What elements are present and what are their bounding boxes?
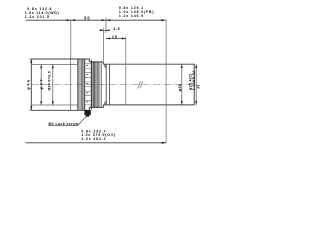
extension line x=70.8 [70,20,72,59]
svg-text:M34 P=0.5: M34 P=0.5 [48,71,52,91]
svg-text:φ37: φ37 [38,78,43,90]
dim phi37 line [40,65,42,106]
scale band left edge [84,59,86,110]
scale band graduation ticks [85,64,91,105]
svg-text:4.5: 4.5 [113,27,120,31]
barrel inner bore line bottom [32,104,78,106]
dim phi36 line at tube end [181,64,183,105]
phi37 arrows [40,65,42,69]
top dim arrow pair at x=106 [102,19,106,21]
rear section outline [89,62,103,108]
dim phi46 on front face: top arrow [30,59,32,63]
text block WD (top left) [25,7,60,19]
top dim arrow left pair at x=70.8 [66,19,70,21]
top dim end arrow at x=165.8 [161,19,165,21]
front barrel outline [31,59,89,110]
svg-text:1.2x 140.9: 1.2x 140.9 [119,14,144,18]
dimension line bottom (O/I) [26,142,167,144]
break mark slash 2 [140,81,143,88]
rear tube outline [103,64,194,105]
break mark slash 1 [138,81,141,88]
svg-text:1-32UN-2A: 1-32UN-2A [192,70,196,90]
tube V-groove bottom [104,102,106,105]
svg-text:30: 30 [84,15,91,20]
extension line x=125.8 [125,37,127,105]
M34 arrows [52,65,54,69]
svg-text:φ36: φ36 [178,84,182,92]
svg-text:FT: FT [197,84,200,88]
scale band figures [86,65,88,102]
barrel bottom extension line [29,109,31,111]
C-mount dim arrows [195,64,197,68]
tube groove line 2 [108,64,110,105]
barrel inner bore line top [32,64,78,66]
dimension 4.5 line [99,29,109,31]
dimension line top (WD) [26,19,166,21]
dim phi46 bottom arrow [30,106,32,110]
4.5 arrows [100,29,104,31]
extension line x=166.1 full [165,19,167,143]
M2 lock screw [85,110,91,117]
rear rings [98,62,101,108]
focus ring joint [70,59,72,110]
15 arrow left [106,37,110,39]
M2 leader arrowhead [85,115,88,117]
svg-text:15: 15 [112,35,118,39]
svg-text:1.2x 101.5: 1.2x 101.5 [25,15,50,19]
centerline [32,84,193,86]
scale band right edge [90,60,92,110]
tube V-groove top [104,64,106,67]
tube groove line 1 [105,64,107,105]
extension line x=103.5 [103,28,105,61]
svg-text:φ46: φ46 [25,78,30,90]
svg-text:M2 Lock screw: M2 Lock screw [49,122,79,126]
phi36 arrows [181,64,183,68]
dim M34 line [52,65,54,106]
svg-text:1.2x 361.4: 1.2x 361.4 [81,137,106,141]
15 arrow right [122,37,126,39]
dim C-mount line right of face [195,64,197,105]
M2 leader line [78,117,86,126]
dimension 15 line [106,38,126,40]
text block FB (top right) [119,6,154,18]
M2 text underline [48,125,77,127]
barrel top extension line [29,58,31,60]
bottom dim end arrow [162,142,166,144]
extension line x=106 top [105,18,107,33]
knurl ring 2 stripes [92,62,97,108]
text block O/I (bottom) [81,129,116,141]
knurl ring stripes [77,59,84,110]
